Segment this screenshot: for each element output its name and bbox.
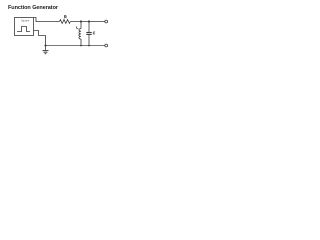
svg-text:Function Generator: Function Generator [8,5,59,11]
svg-text:Square: Square [21,18,30,22]
